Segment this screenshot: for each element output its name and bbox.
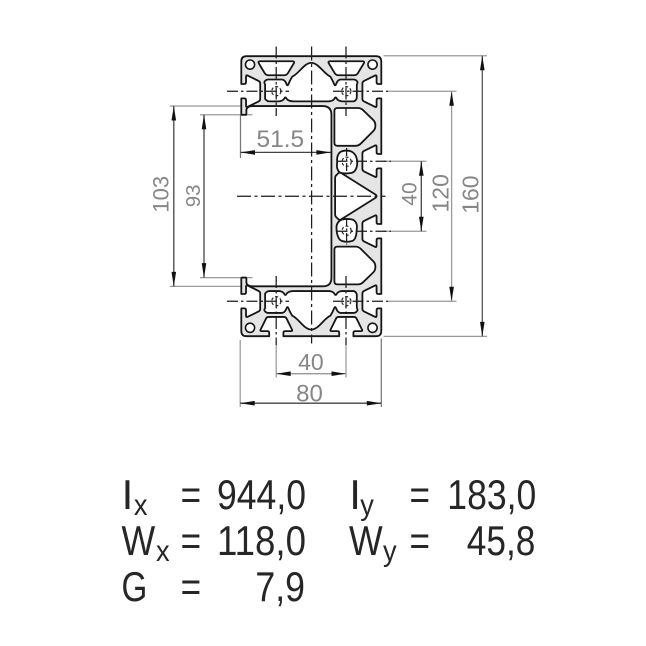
svg-text:=: = <box>181 517 202 564</box>
svg-text:G: G <box>122 563 148 610</box>
svg-text:=: = <box>410 471 431 518</box>
svg-text:45,8: 45,8 <box>467 517 536 564</box>
svg-text:W: W <box>122 517 156 564</box>
svg-text:=: = <box>410 517 431 564</box>
svg-text:118,0: 118,0 <box>217 517 306 564</box>
svg-text:40: 40 <box>399 182 422 205</box>
svg-text:103: 103 <box>149 176 174 213</box>
svg-text:183,0: 183,0 <box>447 471 536 518</box>
svg-text:160: 160 <box>458 175 484 213</box>
svg-text:=: = <box>181 471 202 518</box>
svg-text:944,0: 944,0 <box>217 471 306 518</box>
svg-text:x: x <box>156 535 170 568</box>
svg-text:51.5: 51.5 <box>256 126 304 153</box>
svg-text:40: 40 <box>298 349 324 375</box>
svg-text:I: I <box>349 471 361 518</box>
svg-text:80: 80 <box>296 381 323 408</box>
svg-text:120: 120 <box>427 174 453 212</box>
svg-text:I: I <box>122 471 134 518</box>
svg-text:=: = <box>181 563 202 610</box>
svg-text:W: W <box>349 517 383 564</box>
svg-text:93: 93 <box>182 184 205 207</box>
svg-text:7,9: 7,9 <box>255 563 305 610</box>
svg-text:y: y <box>383 535 397 568</box>
